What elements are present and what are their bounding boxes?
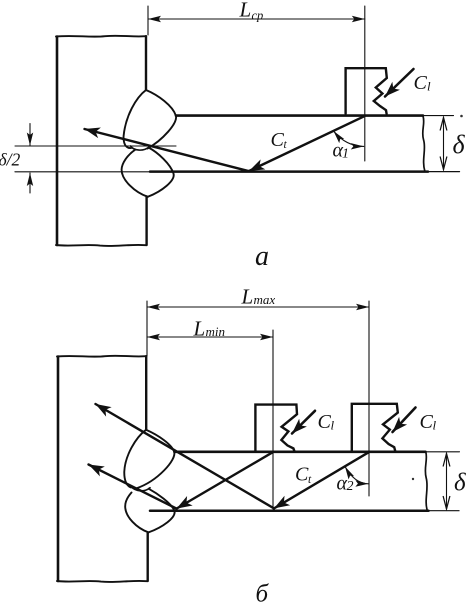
- figure a : horizontal plate right break edge (wavy): [423, 116, 425, 171]
- figure b : label Lmax: [241, 285, 276, 309]
- figure b : weld bead upper bulge left contour: [124, 430, 146, 488]
- figure a : bottom surface thin line toward delta/2 dimension: [15, 171, 150, 173]
- figure b : vertical plate right edge above weld: [145, 356, 147, 430]
- figure b : vertical plate bottom break edge (wavy): [57, 581, 147, 582]
- figure a : vertical plate bottom break edge (wavy): [56, 245, 146, 246]
- svg-text:C: C: [271, 129, 285, 151]
- svg-text:a: a: [255, 241, 269, 272]
- figure a : vertical plate left edge: [56, 37, 59, 246]
- figure b : angle alpha2 arc: [345, 467, 368, 484]
- svg-text:l: l: [331, 418, 335, 433]
- figure b : incident wave Cl arrow into probe 2: [393, 408, 416, 433]
- figure a : mid-thickness line for delta/2 dimension: [15, 145, 176, 147]
- figure a : horizontal plate bottom surface: [150, 170, 428, 173]
- figure a : label Cl: [414, 72, 432, 94]
- figure b : label alpha2: [337, 473, 354, 495]
- svg-text:δ/2: δ/2: [0, 150, 20, 170]
- figure b : horizontal plate right break edge (wavy): [425, 452, 427, 511]
- figure b : label Ct: [295, 464, 312, 487]
- figure b : horizontal plate bottom surface: [150, 509, 429, 512]
- svg-text:2: 2: [347, 479, 354, 494]
- figure b : dimension line Lmin: [147, 336, 273, 338]
- figure b : stray scan dot: [412, 478, 414, 480]
- figure a : horizontal plate top surface: [176, 114, 423, 117]
- figure a : weld bead lower bulge left contour: [122, 150, 148, 197]
- svg-text:max: max: [254, 292, 276, 307]
- figure b : delta thickness dimension double arrow: [446, 454, 448, 510]
- figure a : incident wave Cl arrow: [385, 69, 414, 97]
- figure a : transducer probe body with zigzag: [346, 68, 387, 114]
- svg-text:C: C: [414, 72, 428, 94]
- figure b : vertical plate left edge: [57, 357, 60, 582]
- svg-text:C: C: [295, 464, 309, 486]
- svg-text:б: б: [256, 581, 270, 608]
- figure b : transducer probe 2 body with zigzag (Lmax position): [352, 404, 398, 452]
- figure b : bottom surface thin extension for delta dimension: [429, 510, 460, 512]
- svg-text:l: l: [433, 418, 437, 433]
- figure a : vertical plate right edge above weld: [145, 36, 147, 90]
- figure a : dimension line Lcp: [148, 18, 365, 20]
- figure b : weld bead lower bulge right contour: [149, 489, 175, 533]
- figure a : extension line right of dimension Lcp (probe axis): [364, 6, 366, 161]
- figure a : weld bead waist arc: [131, 146, 150, 150]
- figure a : angle alpha1 arc: [334, 131, 364, 146]
- figure a : label alpha1: [333, 140, 350, 162]
- svg-text:δ: δ: [454, 470, 466, 497]
- figure b : dimension line Lmax: [147, 306, 369, 308]
- figure a : reflected beam through weld up-left: [85, 129, 250, 171]
- svg-text:L: L: [193, 317, 206, 341]
- figure a : vertical plate right edge below weld: [145, 197, 147, 246]
- figure a : label Ct: [271, 129, 288, 151]
- figure a : bottom surface thin extension for delta dimension: [428, 171, 460, 173]
- figure a : weld bead upper bulge left contour: [124, 90, 146, 148]
- figure b : extension line right of dimension Lmax (probe 2 axis): [368, 301, 370, 496]
- figure b : incident wave Cl arrow into probe 1: [292, 411, 315, 434]
- figure a : top surface thin extension for delta dimension: [423, 115, 454, 117]
- figure b : weld bead waist arc: [131, 487, 150, 491]
- figure a : weld bead upper bulge right contour: [146, 90, 176, 149]
- svg-text:C: C: [318, 411, 332, 433]
- figure b : vertical plate top break edge (wavy): [57, 355, 146, 358]
- figure a : label Lcp: [239, 0, 264, 23]
- svg-text:cp: cp: [252, 9, 264, 23]
- figure b : beam from probe 1 entry down to weld root: [177, 452, 273, 508]
- figure b : transducer probe 1 body with zigzag (Lmin position): [255, 405, 297, 452]
- figure b : extension line of dimension Lmin (probe 1 axis): [272, 330, 274, 509]
- figure b : extension line left of dimensions Lmax and Lmin: [146, 301, 148, 356]
- svg-text:δ: δ: [453, 130, 466, 159]
- svg-text:1: 1: [342, 147, 349, 162]
- figure a : shear wave Ct beam from entry point to bottom reflection: [249, 116, 364, 171]
- svg-text:min: min: [206, 324, 226, 339]
- figure b : beam reflected from root up-left: [89, 465, 177, 509]
- svg-text:C: C: [420, 411, 434, 433]
- figure a : delta/2 dimension upper arrow: [29, 124, 31, 146]
- figure b : weld bead upper bulge right contour: [136, 430, 174, 489]
- figure b : shear wave Ct beam from probe 2 entry down to bottom: [274, 452, 369, 508]
- figure b : vertical plate right edge below weld: [146, 532, 148, 581]
- figure b : top surface thin extension for delta dimension: [426, 451, 460, 453]
- figure b : beam reflected from bottom up-left through weld: [96, 404, 275, 508]
- figure a : stray scan dot: [460, 115, 463, 118]
- figure a : delta thickness dimension double arrow: [443, 118, 445, 170]
- figure b : horizontal plate top surface: [175, 450, 426, 453]
- svg-text:l: l: [427, 79, 431, 94]
- figure a : delta/2 dimension lower arrow: [29, 173, 31, 193]
- figure b : label Cl at probe 2: [420, 411, 437, 433]
- figure a : weld bead lower bulge right contour: [148, 148, 174, 197]
- svg-text:L: L: [239, 0, 252, 22]
- svg-text:L: L: [241, 285, 254, 309]
- figure b : label Cl at probe 1: [318, 411, 335, 433]
- figure a : extension line left of dimension Lcp: [147, 6, 149, 35]
- figure a : vertical plate top break edge (wavy): [56, 35, 146, 38]
- figure b : weld bead lower bulge left contour: [125, 493, 148, 533]
- figure b : label Lmin: [193, 317, 226, 341]
